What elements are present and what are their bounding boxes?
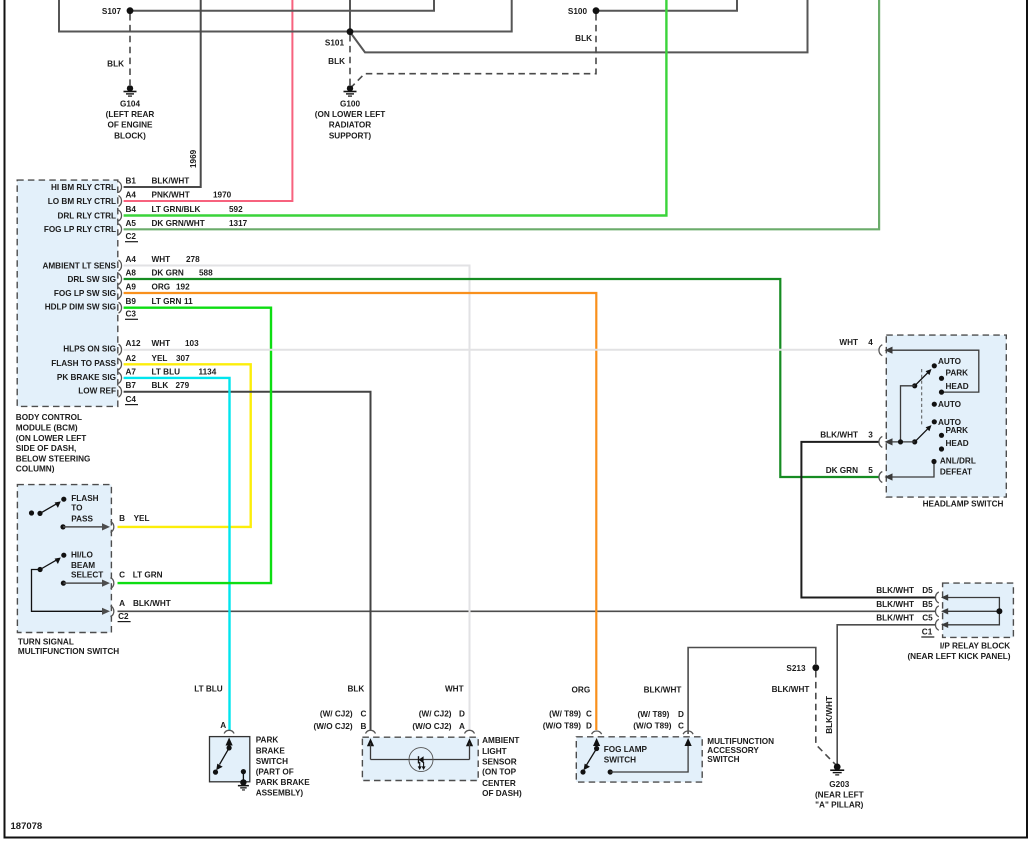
park brake ground contact [238, 769, 249, 791]
svg-text:B4: B4 [126, 205, 137, 214]
BCM circuit number labels [176, 191, 248, 391]
svg-text:A9: A9 [126, 283, 137, 292]
wire B4 LT GRN/BLK 592 [124, 0, 667, 216]
svg-text:FLASH TO PASS: FLASH TO PASS [51, 359, 116, 368]
svg-text:PASS: PASS [71, 515, 93, 524]
wire BLK dashed S107 to G104 [129, 14, 131, 85]
wire relay C5 BLK/WHT to G203 [837, 625, 936, 764]
svg-text:BLK/WHT: BLK/WHT [876, 600, 914, 609]
svg-text:A: A [459, 722, 465, 731]
park brake caption [256, 736, 311, 798]
wire A9 ORG 192 to fog lamp switch [124, 293, 597, 730]
relay pin C5 [876, 613, 948, 630]
svg-text:DRL RLY CTRL: DRL RLY CTRL [57, 211, 116, 220]
svg-text:278: 278 [186, 255, 200, 264]
svg-text:LOW REF: LOW REF [78, 387, 116, 396]
hi/lo output pin C [61, 570, 163, 588]
svg-text:HI BM RLY CTRL: HI BM RLY CTRL [51, 183, 116, 192]
headlamp pole link wire [901, 386, 915, 442]
fog lamp caption [604, 745, 648, 765]
svg-text:LIGHT: LIGHT [482, 747, 507, 756]
svg-text:SELECT: SELECT [71, 570, 103, 579]
svg-text:SUPPORT): SUPPORT) [329, 131, 372, 140]
ambient internal wires [367, 738, 473, 759]
svg-text:HEADLAMP SWITCH: HEADLAMP SWITCH [923, 500, 1004, 509]
svg-text:C3: C3 [126, 310, 137, 319]
svg-text:1969: 1969 [189, 149, 198, 168]
svg-text:A: A [119, 599, 125, 608]
svg-text:BLK: BLK [152, 381, 169, 390]
multifunction accessory switch caption [707, 737, 774, 764]
wire A4 WHT 278 to ambient light sensor [124, 266, 470, 731]
svg-text:BLK: BLK [107, 60, 124, 69]
svg-text:A2: A2 [126, 354, 137, 363]
svg-text:C: C [361, 709, 367, 718]
svg-text:S100: S100 [568, 7, 588, 16]
svg-text:DEFEAT: DEFEAT [940, 468, 972, 477]
relay pin D5 [876, 586, 948, 603]
svg-text:A4: A4 [126, 255, 137, 264]
ground G104 [106, 85, 155, 140]
wire A8 DK GRN 588 to headlamp switch pin5 [124, 279, 879, 477]
park brake pin A [220, 721, 234, 734]
svg-text:WHT: WHT [152, 255, 171, 264]
svg-text:BLK/WHT: BLK/WHT [876, 613, 914, 622]
svg-text:A4: A4 [126, 191, 137, 200]
svg-text:BEAM: BEAM [71, 561, 95, 570]
svg-text:ANL/DRL: ANL/DRL [940, 457, 976, 466]
svg-text:LT BLU: LT BLU [194, 685, 223, 694]
park brake switch box [210, 737, 250, 782]
svg-text:TO: TO [71, 504, 83, 513]
wire A2 YEL 307 to turn signal switch [118, 364, 251, 527]
wire turn signal A BLK/WHT to relay B5 [118, 610, 937, 612]
wire B7 BLK 279 to ambient light sensor [124, 392, 371, 730]
BCM pin id labels [126, 177, 141, 391]
wire S100 feed [599, 0, 737, 11]
svg-text:A5: A5 [126, 219, 137, 228]
svg-text:3: 3 [868, 430, 873, 439]
svg-text:DK GRN: DK GRN [152, 269, 184, 278]
svg-text:C: C [586, 710, 592, 719]
svg-text:DRL SW SIG: DRL SW SIG [67, 275, 116, 284]
svg-text:CENTER: CENTER [482, 779, 516, 788]
node S213 [786, 664, 819, 673]
svg-text:FOG LP RLY CTRL: FOG LP RLY CTRL [44, 225, 116, 234]
svg-text:(ON LOWER LEFT: (ON LOWER LEFT [315, 110, 386, 119]
svg-text:A12: A12 [126, 339, 141, 348]
svg-text:C4: C4 [126, 395, 137, 404]
svg-text:(W/O CJ2): (W/O CJ2) [412, 722, 451, 731]
wire S213 dashed to G203 [816, 671, 836, 765]
flash-to-pass label [71, 494, 98, 524]
svg-text:G104: G104 [120, 99, 140, 108]
svg-text:SWITCH: SWITCH [707, 755, 739, 764]
svg-text:(NEAR LEFT: (NEAR LEFT [815, 791, 864, 800]
svg-text:PARK BRAKE: PARK BRAKE [256, 778, 311, 787]
svg-text:HI/LO: HI/LO [71, 551, 93, 560]
ambient pin D/A labels [412, 709, 465, 731]
svg-text:SWITCH: SWITCH [256, 757, 288, 766]
svg-text:B9: B9 [126, 297, 137, 306]
svg-text:C2: C2 [118, 612, 129, 621]
svg-text:192: 192 [176, 283, 190, 292]
wire A7 LT BLU 1134 to park brake switch [124, 378, 230, 730]
svg-text:ORG: ORG [572, 685, 591, 694]
svg-text:187078: 187078 [11, 821, 43, 832]
svg-text:(W/ CJ2): (W/ CJ2) [320, 709, 353, 718]
svg-text:(ON TOP: (ON TOP [482, 768, 517, 777]
svg-text:DK GRN: DK GRN [826, 466, 858, 475]
ambient connector arcs [366, 730, 475, 733]
svg-text:OF DASH): OF DASH) [482, 789, 522, 798]
svg-text:ORG: ORG [152, 283, 171, 292]
relay internal junction [996, 608, 1002, 614]
BCM box (body control module) [17, 180, 118, 406]
node S100 [568, 7, 600, 16]
svg-text:LT GRN: LT GRN [152, 297, 182, 306]
fog lamp switch box [576, 737, 702, 782]
relay caption [907, 641, 1010, 661]
svg-text:BLK/WHT: BLK/WHT [133, 599, 171, 608]
svg-text:"A" PILLAR): "A" PILLAR) [815, 801, 864, 810]
wire B1 BLK/WHT 1969 [124, 0, 201, 187]
turn signal caption [18, 638, 119, 657]
wire headlamp pin3 BLK/WHT to relay D5 [801, 442, 936, 598]
svg-text:592: 592 [229, 205, 243, 214]
svg-text:D: D [459, 709, 465, 718]
svg-text:BLK: BLK [347, 685, 364, 694]
BCM pin brackets [119, 182, 122, 398]
multifunction pin D/C labels [633, 710, 684, 731]
headlamp pin 5 connector ANL/DRL DEFEAT [826, 457, 976, 483]
fog lamp switch contacts [580, 738, 600, 775]
park brake switch contacts [213, 738, 233, 775]
svg-text:BRAKE: BRAKE [256, 746, 286, 755]
ambient photodiode symbol [409, 748, 433, 772]
svg-text:(PART OF: (PART OF [256, 767, 294, 776]
svg-text:MULTIFUNCTION: MULTIFUNCTION [707, 737, 774, 746]
svg-text:D: D [678, 710, 684, 719]
svg-text:RADIATOR: RADIATOR [329, 121, 372, 130]
svg-text:1317: 1317 [229, 219, 248, 228]
ground G203 [815, 764, 864, 810]
svg-text:A7: A7 [126, 367, 137, 376]
svg-text:B1: B1 [126, 177, 137, 186]
svg-text:(W/ CJ2): (W/ CJ2) [419, 709, 452, 718]
ambient pin C/B labels [313, 709, 366, 731]
svg-text:4: 4 [868, 338, 873, 347]
svg-text:BLK: BLK [575, 34, 592, 43]
wire A12 WHT 103 to headlamp switch pin4 [124, 349, 879, 351]
svg-text:C1: C1 [922, 627, 933, 636]
svg-text:LT GRN/BLK: LT GRN/BLK [152, 205, 201, 214]
relay internal bus [947, 598, 999, 625]
hi/lo beam select contacts [38, 553, 67, 573]
svg-text:S107: S107 [102, 7, 122, 16]
BCM internal pin function labels [42, 183, 116, 396]
svg-text:(W/ T89): (W/ T89) [549, 710, 581, 719]
svg-text:279: 279 [176, 381, 190, 390]
svg-text:103: 103 [185, 339, 199, 348]
svg-text:D: D [586, 722, 592, 731]
wire BLK dashed S100 to G100 [352, 14, 597, 87]
svg-text:A8: A8 [126, 269, 137, 278]
svg-text:11: 11 [184, 297, 193, 306]
flash-to-pass contacts [29, 497, 67, 516]
svg-text:FLASH: FLASH [71, 494, 98, 503]
fog lamp output to multifunction pin [608, 738, 692, 775]
wire S101 drop [350, 0, 808, 52]
svg-text:BLOCK): BLOCK) [114, 131, 146, 140]
svg-text:AUTO: AUTO [938, 357, 962, 366]
svg-text:307: 307 [176, 354, 190, 363]
svg-text:AMBIENT: AMBIENT [482, 736, 519, 745]
svg-text:(NEAR LEFT KICK PANEL): (NEAR LEFT KICK PANEL) [907, 652, 1010, 661]
svg-text:(LEFT REAR: (LEFT REAR [106, 110, 155, 119]
svg-text:BLK/WHT: BLK/WHT [825, 696, 834, 734]
svg-text:BLK/WHT: BLK/WHT [772, 685, 810, 694]
svg-text:1134: 1134 [199, 367, 217, 376]
headlamp pin4 internal wire [890, 350, 979, 392]
headlamp switch pole2 [912, 418, 969, 452]
svg-text:B: B [361, 722, 367, 731]
wire upper bus y=31.5 [59, 0, 512, 32]
svg-text:B5: B5 [922, 600, 933, 609]
headlamp switch pole1 [912, 357, 969, 395]
svg-text:BLK/WHT: BLK/WHT [644, 685, 682, 694]
headlamp pin 3 connector [820, 430, 914, 447]
svg-text:AUTO: AUTO [938, 400, 962, 409]
svg-text:(ON LOWER LEFT: (ON LOWER LEFT [16, 434, 87, 443]
svg-text:MODULE (BCM): MODULE (BCM) [16, 423, 78, 432]
svg-text:C: C [678, 722, 684, 731]
ambient caption [482, 736, 522, 798]
svg-text:BLK/WHT: BLK/WHT [820, 430, 858, 439]
svg-text:C2: C2 [126, 232, 137, 241]
I/P relay block box [943, 583, 1014, 637]
BCM wire color labels [152, 177, 205, 391]
svg-text:YEL: YEL [152, 354, 168, 363]
svg-text:MULTIFUNCTION SWITCH: MULTIFUNCTION SWITCH [18, 647, 119, 656]
wire A5 DK GRN/WHT 1317 [124, 0, 880, 229]
svg-text:588: 588 [199, 269, 213, 278]
wire S107 feed [133, 0, 434, 11]
svg-text:HDLP DIM SW SIG: HDLP DIM SW SIG [45, 303, 116, 312]
wire B9 LT GRN 11 to turn signal switch [118, 308, 272, 583]
svg-text:(W/ T89): (W/ T89) [638, 710, 670, 719]
svg-text:PARK: PARK [256, 736, 279, 745]
svg-text:AMBIENT LT SENS: AMBIENT LT SENS [42, 261, 116, 270]
svg-text:BLK: BLK [328, 57, 345, 66]
wire A4 PNK/WHT 1970 [124, 0, 293, 201]
relay pin B5 [876, 600, 948, 617]
svg-text:BELOW STEERING: BELOW STEERING [16, 454, 91, 463]
svg-text:S213: S213 [786, 664, 806, 673]
svg-text:PARK: PARK [946, 426, 969, 435]
svg-text:1970: 1970 [213, 191, 232, 200]
ground G100 [315, 85, 386, 140]
svg-text:HEAD: HEAD [946, 382, 969, 391]
svg-text:ACCESSORY: ACCESSORY [707, 746, 759, 755]
svg-text:DK GRN/WHT: DK GRN/WHT [152, 219, 205, 228]
svg-text:LT GRN: LT GRN [133, 570, 163, 579]
svg-text:FOG LP SW SIG: FOG LP SW SIG [54, 289, 116, 298]
relay connector C1 [921, 627, 934, 637]
svg-text:A: A [220, 721, 226, 730]
svg-text:(W/O CJ2): (W/O CJ2) [313, 722, 352, 731]
ambient light sensor box [362, 737, 478, 780]
svg-text:BLK/WHT: BLK/WHT [152, 177, 190, 186]
svg-text:WHT: WHT [445, 685, 464, 694]
hi/lo common pin A [32, 570, 171, 617]
headlamp middle AUTO contact [932, 400, 962, 409]
svg-text:COLUMN): COLUMN) [16, 465, 55, 474]
wire multifunction BLK/WHT to S213 [688, 648, 816, 735]
svg-text:S101: S101 [325, 39, 345, 48]
svg-text:ASSEMBLY): ASSEMBLY) [256, 789, 304, 798]
svg-text:LO BM RLY CTRL: LO BM RLY CTRL [48, 197, 116, 206]
headlamp pin 4 connector [839, 338, 892, 356]
svg-text:G100: G100 [340, 99, 360, 108]
svg-text:SWITCH: SWITCH [604, 756, 636, 765]
fog lamp pin C/D labels [543, 710, 592, 731]
BCM caption [16, 413, 91, 474]
fog lamp connector arcs [592, 731, 694, 734]
wire BLK dashed S101 to G100 [349, 35, 351, 85]
svg-text:WHT: WHT [839, 338, 858, 347]
node S101 [325, 28, 354, 47]
svg-text:HLPS ON SIG: HLPS ON SIG [63, 345, 116, 354]
flash-to-pass output pin B [60, 514, 149, 532]
headlamp mechanical link dashed [921, 369, 923, 425]
svg-text:PK BRAKE SIG: PK BRAKE SIG [57, 373, 116, 382]
svg-text:SIDE OF DASH,: SIDE OF DASH, [16, 444, 77, 453]
svg-text:G203: G203 [829, 780, 849, 789]
svg-text:C: C [119, 570, 125, 579]
turn signal connector C2 [118, 612, 131, 622]
svg-text:WHT: WHT [152, 339, 171, 348]
svg-text:D5: D5 [922, 586, 933, 595]
svg-text:(W/O T89): (W/O T89) [633, 722, 671, 731]
headlamp switch box [886, 335, 1006, 497]
svg-text:HEAD: HEAD [946, 439, 969, 448]
svg-text:5: 5 [868, 466, 873, 475]
svg-text:YEL: YEL [134, 514, 150, 523]
svg-text:FOG LAMP: FOG LAMP [604, 745, 648, 754]
svg-text:(W/O T89): (W/O T89) [543, 722, 581, 731]
svg-text:SENSOR: SENSOR [482, 757, 517, 766]
hi/lo beam label [71, 551, 103, 580]
svg-text:I/P RELAY BLOCK: I/P RELAY BLOCK [940, 641, 1010, 650]
svg-text:PNK/WHT: PNK/WHT [152, 191, 190, 200]
svg-text:B: B [119, 514, 125, 523]
BCM connector group C4 [125, 395, 138, 405]
svg-text:LT BLU: LT BLU [152, 367, 181, 376]
node S107 [102, 7, 134, 16]
svg-text:BLK/WHT: BLK/WHT [876, 586, 914, 595]
svg-text:C5: C5 [922, 613, 933, 622]
svg-text:PARK: PARK [946, 368, 969, 377]
svg-text:B7: B7 [126, 381, 137, 390]
BCM connector group C2 [125, 232, 138, 242]
svg-text:OF ENGINE: OF ENGINE [107, 121, 153, 130]
turn signal multifunction switch box [17, 485, 111, 633]
BCM connector group C3 [125, 310, 138, 320]
svg-text:BODY CONTROL: BODY CONTROL [16, 413, 82, 422]
svg-text:TURN SIGNAL: TURN SIGNAL [18, 638, 74, 647]
